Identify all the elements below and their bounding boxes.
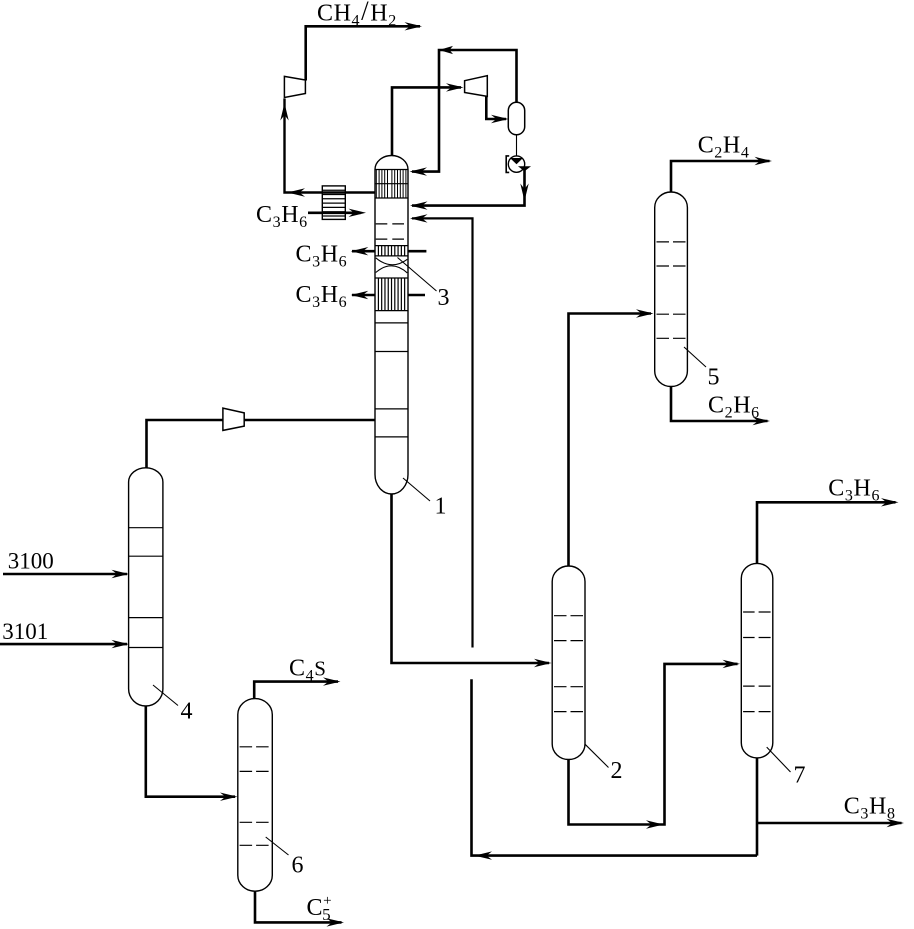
wire C4S overhead from column6 (254, 677, 340, 699)
column 4 trays (129, 528, 163, 648)
svg-text:2: 2 (611, 758, 623, 784)
svg-text:5: 5 (708, 365, 720, 391)
wire column2 bottoms to column7 (569, 660, 741, 829)
wire drum V1 bottom to pump P1 (516, 135, 518, 156)
internal distributor 3 (crossed arcs) (376, 258, 408, 273)
wire 3101 feed (0, 640, 129, 648)
wire column1 overhead to compressor K2 (392, 83, 464, 156)
column 1 top packing section (375, 170, 408, 199)
column 1 shell (375, 156, 408, 495)
label pointer 3 (398, 258, 437, 292)
wire column1 bottoms to column2 (392, 494, 552, 668)
label pointer 6 (266, 837, 289, 855)
svg-text:3100: 3100 (8, 549, 54, 574)
compressor K1 (expander top-left) (284, 76, 305, 97)
column 1 lower packing section (375, 278, 408, 311)
column 4 shell (129, 468, 163, 706)
label pointer 2 (585, 744, 609, 767)
column 1 middle packing section (375, 246, 408, 256)
wire drum V1 vapor back to column1 top (410, 46, 517, 176)
wire column2 overhead to column5 (569, 309, 654, 565)
label pointer 7 (767, 747, 791, 772)
column 7 dashed trays (743, 612, 771, 712)
wire recycle riser into column1 (410, 214, 473, 647)
label pointer 5 (684, 347, 706, 367)
wire C5+ bottoms from column6 (255, 891, 344, 927)
wire C2H6 bottoms from column5 (671, 386, 770, 425)
wire C3H6 refrigerant into E1 (308, 209, 366, 217)
svg-text:4: 4 (181, 699, 193, 725)
svg-text:3: 3 (438, 285, 450, 311)
compressor K2 (top-right) (465, 76, 488, 97)
pump P1 (506, 156, 531, 173)
svg-text:6: 6 (292, 853, 304, 879)
wire C3H6 side draw upper (351, 247, 375, 255)
column 5 shell (655, 192, 688, 387)
wire 3100 feed (3, 570, 129, 578)
column 5 dashed trays (657, 242, 686, 338)
svg-text:3101: 3101 (2, 619, 48, 644)
wire column7 bottoms down (756, 758, 759, 856)
wire column1 reflux out through E1 to compressor K1 (280, 99, 375, 197)
compressor K3 (column4 overhead) (223, 408, 244, 430)
wire C3H6 side draw lower (351, 291, 375, 299)
svg-text:1: 1 (435, 494, 447, 520)
wire C3H6 overhead from column7 (757, 498, 899, 564)
wire bottom recycle header (472, 679, 758, 860)
column 2 dashed trays (554, 616, 583, 712)
wire column4 overhead through compressor K3 to column1 feed (147, 420, 376, 469)
label pointer 4 (153, 685, 178, 706)
column 1 upper dashed trays (376, 224, 404, 239)
wire side stub right upper (408, 250, 426, 253)
column 7 shell (741, 563, 773, 758)
svg-text:7: 7 (794, 763, 806, 789)
wire column4 bottoms to column6 (146, 706, 238, 801)
svg-text:C+5: C+5 (307, 893, 333, 924)
column 6 shell (238, 699, 272, 892)
wire C3H8 product (757, 819, 904, 827)
column 6 dashed trays (240, 747, 269, 846)
label pointer 1 (403, 478, 430, 501)
heat exchanger E1 shell (322, 186, 345, 220)
wire pump P1 discharge to column1 (410, 169, 529, 210)
wire side stub right lower (408, 294, 425, 297)
column 1 lower trays (375, 323, 408, 437)
column 2 shell (552, 566, 585, 760)
wire CH4/H2 overhead from compressor K1 (306, 22, 422, 80)
drum V1 (508, 102, 524, 135)
wire C2H4 overhead from column5 (671, 157, 772, 193)
wire compressor K2 discharge to drum V1 (486, 96, 508, 124)
